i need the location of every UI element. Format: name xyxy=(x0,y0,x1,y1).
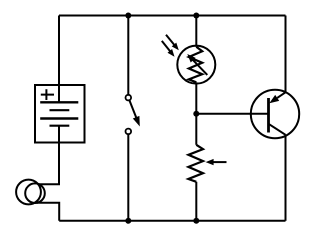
battery B1 xyxy=(35,85,85,143)
wire top rail xyxy=(59,15,286,17)
LDR R1 xyxy=(177,46,215,84)
wire transistor bottom lead to rail xyxy=(285,135,287,221)
light arrow 1 xyxy=(166,35,179,51)
wire LDR branch top xyxy=(195,16,197,47)
wire buzzer bottom lead to bottom rail xyxy=(37,203,59,221)
wire transistor top lead to rail xyxy=(285,16,287,93)
transistor Q1 xyxy=(251,90,299,138)
switch S1 xyxy=(126,95,140,134)
light arrow 2 xyxy=(162,41,175,57)
buzzer LS1 xyxy=(16,180,45,205)
node bottom rail / potentiometer xyxy=(193,218,199,224)
node top rail / switch xyxy=(125,13,131,19)
wire left rail down to battery positive plate xyxy=(58,16,60,103)
wire bottom rail xyxy=(59,220,285,222)
node base junction xyxy=(193,111,199,117)
potentiometer VR1 xyxy=(188,145,226,182)
wire switch branch bottom xyxy=(127,134,129,220)
node top rail / LDR xyxy=(193,13,199,19)
wire battery negative lead down and left to buzzer xyxy=(38,126,59,185)
wire switch branch top xyxy=(127,16,129,95)
wire LDR to base junction and potentiometer xyxy=(195,82,197,145)
wire potentiometer bottom xyxy=(195,182,197,221)
node bottom rail / switch xyxy=(125,218,131,224)
wire base wire to transistor xyxy=(196,113,268,115)
